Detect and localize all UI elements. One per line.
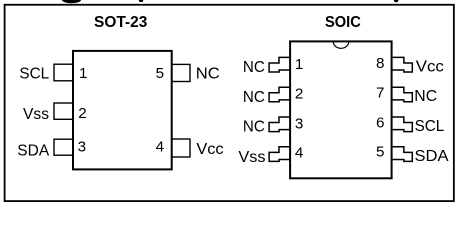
SOIC pin 8 lead [392, 57, 413, 72]
svg-text:4: 4 [156, 139, 164, 156]
svg-text:2: 2 [295, 86, 303, 103]
svg-text:SDA: SDA [17, 142, 49, 159]
SOT-23 pin 4 lead [172, 139, 190, 157]
svg-text:2: 2 [78, 105, 86, 122]
svg-text:6: 6 [376, 114, 384, 131]
SOT-23 pin 5 lead [172, 64, 190, 81]
svg-text:Vss: Vss [23, 106, 49, 123]
frame (decorative) [5, 5, 454, 201]
svg-text:3: 3 [295, 115, 303, 132]
SOIC pin 6 lead [392, 117, 413, 132]
SOIC pin 4 lead [269, 147, 290, 162]
svg-text:SCL: SCL [19, 66, 49, 83]
SOIC pin 3 lead [269, 117, 290, 132]
svg-text:7: 7 [376, 85, 384, 102]
svg-text:NC: NC [414, 88, 437, 105]
svg-text:5: 5 [156, 65, 164, 82]
svg-text:SDA: SDA [415, 148, 449, 165]
svg-text:1: 1 [295, 56, 303, 73]
svg-text:SCL: SCL [415, 118, 445, 135]
svg-text:4: 4 [295, 144, 303, 161]
SOT-23 pin 3 lead [54, 139, 73, 155]
svg-text:SOT-23: SOT-23 [94, 14, 148, 31]
IC body U2 SOIC [290, 41, 392, 178]
svg-text:1: 1 [79, 65, 87, 82]
svg-text:Vcc: Vcc [196, 141, 223, 158]
SOIC pin-1 index notch [333, 41, 349, 48]
svg-text:NC: NC [243, 89, 265, 106]
IC body U1 SOT-23 [73, 51, 172, 169]
SOT-23 pin 2 lead [54, 103, 73, 119]
decorative cropped text remnants at top [62, 0, 81, 3]
SOIC pin 2 lead [269, 87, 290, 102]
SOIC pin 1 lead [269, 57, 290, 72]
svg-text:Vcc: Vcc [416, 59, 444, 76]
svg-text:Vss: Vss [238, 149, 265, 166]
svg-text:NC: NC [243, 59, 265, 76]
SOIC pin 7 lead [392, 87, 413, 102]
svg-text:5: 5 [376, 143, 384, 160]
svg-text:NC: NC [243, 119, 265, 136]
svg-text:8: 8 [376, 55, 384, 72]
SOIC pin 5 lead [392, 147, 413, 162]
SOT-23 pin 1 lead [54, 64, 73, 81]
svg-text:3: 3 [78, 139, 86, 156]
svg-text:SOIC: SOIC [325, 14, 361, 31]
svg-text:NC: NC [196, 66, 220, 83]
